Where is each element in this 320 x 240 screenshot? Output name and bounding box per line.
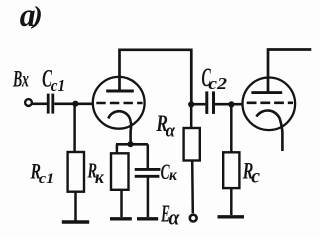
label a) bbox=[20, 0, 43, 33]
node cathode1 junction bbox=[127, 141, 133, 147]
svg-text:с: с bbox=[251, 167, 260, 188]
label Ea bbox=[160, 202, 179, 230]
ground (Ck) bbox=[137, 217, 158, 220]
wire cathode bus down to Ck bbox=[147, 144, 150, 169]
node B (grid2 junction) bbox=[228, 101, 234, 107]
tube V2 grid (dashed) bbox=[247, 102, 293, 105]
wire anode V1 up and over to node A bbox=[120, 50, 192, 104]
resistor Ra bbox=[184, 128, 200, 161]
label Rc bbox=[242, 159, 260, 188]
label Cc1 bbox=[42, 66, 65, 96]
svg-text:α: α bbox=[166, 120, 176, 141]
resistor Rc1 bbox=[68, 152, 84, 192]
node grid1 junction bbox=[72, 101, 78, 107]
label Ra bbox=[156, 112, 176, 141]
capacitor Cc1 bbox=[48, 94, 53, 114]
tube V1 envelope bbox=[93, 77, 145, 129]
svg-text:с2: с2 bbox=[208, 74, 227, 92]
wire Cc1 to grid V1 bbox=[54, 103, 93, 106]
svg-text:с1: с1 bbox=[39, 170, 54, 186]
label Cc2 bbox=[202, 62, 227, 93]
label Rk bbox=[87, 159, 105, 187]
tube V2 cathode bbox=[256, 111, 280, 120]
wire node B down to Rc bbox=[230, 105, 233, 153]
svg-text:Вх: Вх bbox=[12, 67, 29, 93]
capacitor Cc2 bbox=[207, 91, 214, 114]
wire node A to Cc2 bbox=[191, 103, 205, 106]
label Rc1 bbox=[30, 160, 55, 187]
wire Ra down to Ea terminal bbox=[191, 161, 194, 214]
wire Rc1 to ground bbox=[74, 192, 77, 221]
terminal Ea bbox=[190, 215, 197, 222]
capacitor Ck bbox=[135, 169, 161, 176]
wire Cc2 to grid V2 bbox=[215, 103, 244, 106]
resistor Rc bbox=[223, 152, 239, 188]
input terminal bbox=[25, 99, 32, 106]
wire Rk to ground bbox=[120, 190, 123, 217]
tube V2 cathode lead bbox=[280, 119, 282, 151]
tube V1 cathode lead bbox=[129, 121, 132, 143]
wire input to Cc1 bbox=[32, 103, 47, 106]
node A (anode net) bbox=[188, 101, 194, 107]
wire Ck to ground bbox=[147, 176, 150, 217]
ground (Rc) bbox=[218, 215, 245, 218]
tube V1 cathode bbox=[108, 111, 130, 121]
wire cathode bus down to Rk bbox=[116, 144, 119, 153]
ground (Rk) bbox=[110, 217, 132, 220]
tube V1 anode plate bbox=[106, 90, 134, 93]
svg-text:к: к bbox=[95, 167, 105, 187]
wire Rc to ground bbox=[230, 188, 233, 215]
svg-text:с1: с1 bbox=[51, 78, 65, 96]
svg-text:α: α bbox=[169, 204, 180, 230]
label Ck bbox=[161, 160, 178, 186]
wire node A down to Ra bbox=[190, 105, 193, 129]
wire junction down to Rc1 bbox=[73, 104, 76, 153]
resistor Rk bbox=[111, 153, 129, 190]
wire cathode bus bbox=[116, 143, 148, 146]
tube V2 envelope bbox=[242, 78, 295, 131]
tube V2 anode plate bbox=[251, 91, 282, 94]
tube V1 grid (dashed) bbox=[96, 102, 142, 105]
wire anode V2 up and over to B+ rail bbox=[268, 50, 311, 93]
ground (Rc1) bbox=[62, 220, 89, 223]
svg-text:к: к bbox=[169, 167, 178, 184]
